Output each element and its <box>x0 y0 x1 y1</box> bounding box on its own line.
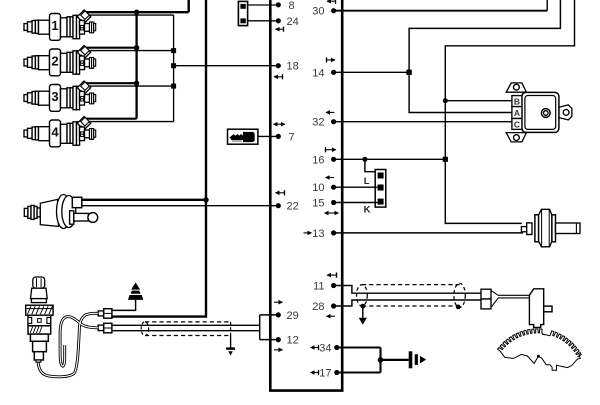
svg-text:A: A <box>514 108 520 118</box>
svg-text:34: 34 <box>319 343 331 355</box>
svg-text:12: 12 <box>287 335 299 347</box>
svg-text:30: 30 <box>312 6 324 18</box>
svg-text:7: 7 <box>289 131 295 143</box>
svg-text:16: 16 <box>312 154 324 166</box>
svg-text:18: 18 <box>287 61 299 73</box>
svg-text:29: 29 <box>287 310 299 322</box>
svg-text:22: 22 <box>287 201 299 213</box>
svg-text:32: 32 <box>312 117 324 129</box>
svg-text:2: 2 <box>51 54 58 69</box>
svg-text:3: 3 <box>51 89 58 104</box>
svg-text:C: C <box>514 119 520 129</box>
svg-text:14: 14 <box>312 67 324 79</box>
svg-text:11: 11 <box>313 281 324 293</box>
svg-text:13: 13 <box>312 228 324 240</box>
svg-text:8: 8 <box>289 0 295 12</box>
svg-text:17: 17 <box>319 368 331 380</box>
svg-text:1: 1 <box>51 18 58 33</box>
svg-text:K: K <box>364 204 371 215</box>
svg-text:15: 15 <box>312 198 324 210</box>
svg-text:24: 24 <box>287 16 299 28</box>
svg-text:10: 10 <box>312 182 324 194</box>
svg-text:L: L <box>364 176 370 187</box>
svg-text:28: 28 <box>312 301 324 313</box>
svg-text:B: B <box>514 97 520 107</box>
svg-text:4: 4 <box>51 125 59 140</box>
